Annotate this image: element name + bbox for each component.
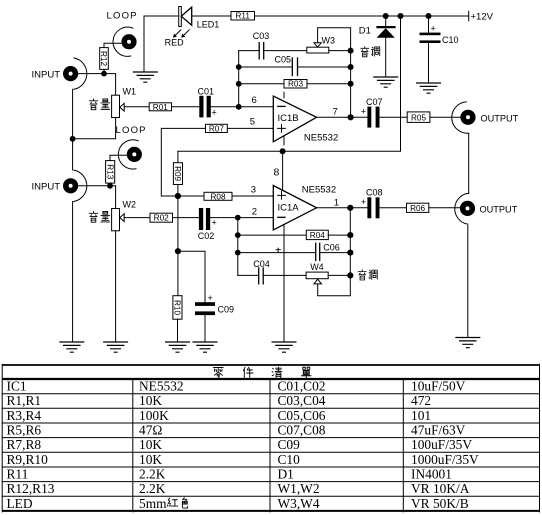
svg-text:R7,R8: R7,R8 bbox=[7, 437, 42, 452]
wire LED to R11 bbox=[192, 15, 231, 17]
svg-text:NE5532: NE5532 bbox=[139, 379, 184, 394]
wire R10 to ground bbox=[177, 319, 179, 342]
junction C05 left bbox=[236, 64, 242, 70]
junction right column W3 bbox=[348, 48, 354, 54]
wire R02 to C02 bbox=[173, 217, 199, 219]
wire W2 wiper to R02 bbox=[124, 217, 150, 219]
svg-text:R3,R4: R3,R4 bbox=[7, 408, 42, 423]
svg-text:101: 101 bbox=[411, 408, 431, 423]
svg-text:2.2K: 2.2K bbox=[139, 481, 166, 496]
wire power feed to op-amp pin 8 row bbox=[178, 16, 401, 151]
resistor R10 bbox=[173, 296, 182, 320]
resistor R13 bbox=[105, 161, 114, 184]
svg-text:R9,R10: R9,R10 bbox=[7, 452, 49, 467]
potentiometer W3 bbox=[307, 28, 351, 53]
svg-text:R01: R01 bbox=[153, 103, 168, 112]
svg-text:5: 5 bbox=[250, 116, 255, 127]
svg-text:IC1A: IC1A bbox=[278, 203, 300, 214]
resistor R01 bbox=[149, 103, 171, 112]
wire bias node down bbox=[177, 196, 179, 251]
svg-text:C06: C06 bbox=[323, 243, 340, 253]
+12V terminal bbox=[468, 11, 470, 21]
wire W4 right bbox=[328, 274, 350, 276]
polarity mark C06 bbox=[276, 248, 281, 253]
wire IC1A right column bbox=[349, 208, 351, 276]
svg-text:IN4001: IN4001 bbox=[411, 467, 452, 482]
wire R06 to output jack 2 bbox=[429, 207, 460, 209]
svg-text:100uF/35V: 100uF/35V bbox=[411, 437, 472, 452]
svg-text:OUTPUT: OUTPUT bbox=[480, 205, 518, 215]
junction C05 right bbox=[348, 64, 354, 70]
junction C06 right bbox=[347, 250, 353, 256]
ground output jacks bbox=[455, 338, 480, 348]
svg-text:C01,C02: C01,C02 bbox=[278, 379, 326, 394]
junction R03 right bbox=[348, 81, 354, 87]
wire IC1A left column bbox=[237, 218, 239, 276]
svg-text:8: 8 bbox=[274, 167, 280, 179]
junction bias node bbox=[175, 193, 181, 199]
svg-text:10uF/50V: 10uF/50V bbox=[411, 379, 466, 394]
label 音量 channel1 bbox=[89, 99, 109, 110]
LED emission arrows bbox=[175, 30, 190, 36]
table row R12,R13 bbox=[7, 481, 470, 496]
svg-text:+: + bbox=[212, 108, 217, 118]
svg-text:C01: C01 bbox=[198, 86, 215, 96]
svg-text:LOOP: LOOP bbox=[116, 125, 147, 136]
svg-text:100K: 100K bbox=[139, 408, 169, 423]
svg-text:W4: W4 bbox=[310, 262, 324, 272]
svg-text:C08: C08 bbox=[366, 187, 383, 197]
svg-text:VR 10K/A: VR 10K/A bbox=[411, 481, 470, 496]
junction C06 left bbox=[235, 250, 241, 256]
LED LED1 bbox=[179, 7, 192, 27]
junction rail-power feed bbox=[398, 13, 404, 19]
svg-text:C05,C06: C05,C06 bbox=[278, 408, 326, 423]
label 音调 channel1 bbox=[361, 47, 380, 57]
svg-text:INPUT: INPUT bbox=[32, 182, 61, 193]
svg-text:10K: 10K bbox=[139, 437, 162, 452]
svg-text:C04: C04 bbox=[253, 259, 270, 269]
wire LOOP2 to R13 bbox=[110, 155, 127, 160]
parts list table borders bbox=[2, 364, 539, 512]
wire +12V top rail left segment bbox=[144, 15, 179, 17]
capacitor C02 bbox=[199, 208, 217, 230]
INPUT jack 1 bbox=[63, 58, 87, 89]
wire W3 right bbox=[329, 50, 351, 52]
svg-text:2: 2 bbox=[252, 206, 257, 217]
svg-text:3: 3 bbox=[251, 185, 256, 196]
svg-text:+: + bbox=[361, 107, 366, 117]
svg-text:2.2K: 2.2K bbox=[139, 467, 166, 482]
svg-text:C03,C04: C03,C04 bbox=[278, 393, 326, 408]
svg-text:R11: R11 bbox=[235, 12, 250, 21]
svg-text:C09: C09 bbox=[278, 437, 301, 452]
wire output shield to ground bbox=[467, 224, 469, 337]
junction R13-input2 bbox=[107, 183, 113, 189]
svg-text:R09: R09 bbox=[173, 166, 182, 181]
junction power feed pin8 bbox=[280, 148, 286, 154]
wire R08 to pin 3 bbox=[232, 195, 273, 197]
label 音调 channel2 bbox=[358, 270, 377, 280]
junction R12-input bbox=[101, 71, 107, 77]
svg-text:IC1: IC1 bbox=[7, 379, 27, 394]
junction left column pin2 bbox=[235, 215, 241, 221]
svg-text:R07: R07 bbox=[209, 124, 224, 133]
junction W4 right bbox=[347, 272, 353, 278]
wire C04 to W4 bbox=[263, 274, 306, 276]
svg-text:W3: W3 bbox=[322, 36, 336, 46]
svg-text:NE5532: NE5532 bbox=[302, 184, 336, 195]
junction pin 7 bbox=[348, 114, 354, 120]
wire R09 feed bbox=[177, 151, 179, 162]
ground C10 bbox=[416, 83, 441, 93]
resistor R03 bbox=[284, 80, 307, 89]
svg-text:W1: W1 bbox=[123, 87, 137, 97]
capacitor C05 bbox=[292, 58, 297, 76]
capacitor C04 bbox=[259, 268, 264, 284]
resistor R07 bbox=[206, 124, 228, 133]
wire pin 5 bbox=[227, 127, 273, 129]
svg-text:R02: R02 bbox=[154, 214, 169, 223]
wire C09 to ground bbox=[204, 315, 206, 342]
junction R04 left bbox=[235, 232, 241, 238]
op-amp IC1A bbox=[273, 186, 316, 230]
wire IC1B left column bbox=[238, 51, 240, 107]
svg-text:INPUT: INPUT bbox=[32, 69, 61, 80]
wire output shield link bbox=[468, 133, 470, 193]
wire R01 to C01 bbox=[172, 106, 200, 108]
OUTPUT jack 1 bbox=[452, 102, 476, 133]
capacitor C06 bbox=[316, 243, 320, 260]
junction left column pin6 bbox=[236, 104, 242, 110]
capacitor C09 bbox=[195, 293, 215, 315]
wire LED cathode to ground drop bbox=[143, 16, 145, 72]
svg-text:LED: LED bbox=[7, 496, 33, 511]
svg-text:10K: 10K bbox=[139, 393, 162, 408]
resistor R09 bbox=[173, 163, 182, 185]
wire R03 row left bbox=[239, 83, 284, 85]
svg-text:7: 7 bbox=[333, 107, 338, 118]
capacitor C07 bbox=[361, 107, 380, 128]
wire shield bus to ground bbox=[72, 202, 74, 342]
svg-text:D1: D1 bbox=[278, 467, 294, 482]
resistor R08 bbox=[204, 192, 232, 201]
table row R11 bbox=[7, 467, 452, 482]
table row R3,R4 bbox=[7, 408, 432, 423]
resistor R05 bbox=[407, 112, 430, 123]
svg-text:47Ω: 47Ω bbox=[139, 423, 162, 438]
wire C01 to pin 6 bbox=[211, 106, 273, 108]
OUTPUT jack 2 bbox=[455, 193, 475, 224]
svg-text:6: 6 bbox=[252, 95, 257, 106]
resistor R11 bbox=[231, 12, 255, 21]
svg-text:R10: R10 bbox=[173, 300, 182, 315]
wire pin 7 output bbox=[317, 116, 368, 118]
wire C02 to pin 2 bbox=[210, 217, 273, 219]
svg-text:R11: R11 bbox=[7, 467, 29, 482]
wire pin 8 drop IC1A bbox=[282, 151, 284, 190]
capacitor C08 bbox=[361, 197, 380, 218]
svg-text:1000uF/35V: 1000uF/35V bbox=[411, 452, 479, 467]
table row IC1 bbox=[7, 379, 466, 394]
table header 零件清單 bbox=[213, 367, 311, 378]
svg-text:+: + bbox=[208, 293, 213, 303]
table row R9,R10 bbox=[7, 452, 480, 467]
wire INPUT2 to W2 bbox=[78, 186, 115, 209]
svg-text:C03: C03 bbox=[253, 31, 270, 41]
svg-text:R03: R03 bbox=[288, 80, 303, 89]
wire pin 4 to ground bbox=[283, 225, 285, 342]
resistor R12 bbox=[99, 48, 108, 70]
wire C06 row right bbox=[320, 252, 351, 254]
svg-text:C02: C02 bbox=[198, 231, 215, 241]
svg-text:W3,W4: W3,W4 bbox=[278, 496, 320, 511]
wire R07 to bias node bbox=[161, 128, 205, 196]
svg-text:C07,C08: C07,C08 bbox=[278, 423, 326, 438]
svg-text:C05: C05 bbox=[275, 55, 292, 65]
svg-text:R08: R08 bbox=[210, 192, 225, 201]
wire W2 bottom to ground bbox=[115, 231, 117, 342]
svg-text:LED1: LED1 bbox=[197, 20, 220, 30]
wire R04 row left bbox=[238, 234, 306, 236]
svg-text:+: + bbox=[361, 197, 366, 207]
svg-text:OUTPUT: OUTPUT bbox=[481, 113, 519, 123]
label 音量 channel2 bbox=[89, 211, 109, 222]
INPUT jack 2 bbox=[63, 170, 87, 201]
op-amp IC1B bbox=[273, 92, 316, 145]
junction pin 1 bbox=[347, 205, 353, 211]
wire R04 row right bbox=[328, 234, 350, 236]
svg-text:IC1B: IC1B bbox=[278, 113, 299, 124]
wire W1 wiper to R01 bbox=[124, 106, 149, 108]
wire LOOP1 to R12 bbox=[104, 43, 122, 47]
svg-text:+: + bbox=[212, 218, 217, 228]
svg-text:R13: R13 bbox=[105, 164, 114, 179]
svg-text:W2: W2 bbox=[123, 199, 137, 209]
wire R05 to output jack 1 bbox=[430, 116, 461, 118]
table row R5,R6 bbox=[7, 423, 466, 438]
wire bias node to R08 bbox=[178, 195, 204, 197]
junction bias node 2 bbox=[175, 248, 181, 254]
LOOP jack 1 bbox=[113, 27, 137, 56]
wire C05 row left bbox=[239, 66, 293, 68]
ground W2 bbox=[103, 342, 128, 352]
resistor R04 bbox=[306, 230, 328, 240]
wire C08 to R06 bbox=[380, 207, 407, 209]
resistor R02 bbox=[150, 213, 173, 223]
svg-text:R04: R04 bbox=[310, 231, 325, 240]
wire R12 to input node bbox=[103, 69, 105, 73]
wire C03 to W3 bbox=[264, 50, 307, 52]
ground input shield bbox=[59, 342, 84, 352]
LOOP jack 2 bbox=[118, 140, 142, 169]
wire C06 row left bbox=[238, 252, 316, 254]
wire R03 row right bbox=[307, 83, 351, 85]
potentiometer W1 bbox=[112, 95, 125, 117]
wire R09 to bias node bbox=[177, 185, 179, 197]
capacitor C10 bbox=[420, 16, 441, 83]
svg-text:R12,R13: R12,R13 bbox=[7, 481, 55, 496]
svg-text:5mm: 5mm bbox=[139, 496, 167, 511]
wire C04 row left bbox=[238, 274, 259, 276]
svg-text:+: + bbox=[431, 24, 436, 34]
svg-text:+12V: +12V bbox=[471, 12, 494, 23]
potentiometer W4 bbox=[306, 272, 350, 296]
svg-text:VR 50K/B: VR 50K/B bbox=[411, 496, 469, 511]
svg-text:D1: D1 bbox=[359, 26, 371, 37]
svg-text:10K: 10K bbox=[139, 452, 162, 467]
ground IC1A pin4 bbox=[272, 342, 297, 352]
svg-text:R06: R06 bbox=[410, 204, 425, 213]
wire C05 row right bbox=[298, 66, 351, 68]
diode D1 bbox=[376, 16, 395, 77]
wire +12V top rail right segment bbox=[255, 15, 469, 17]
svg-text:C10: C10 bbox=[278, 452, 301, 467]
wire pin 1 output bbox=[317, 207, 368, 209]
svg-text:C07: C07 bbox=[366, 97, 383, 107]
resistor R06 bbox=[407, 203, 429, 213]
wire IC1B right column bbox=[350, 51, 352, 118]
wire C03 row left bbox=[239, 50, 260, 52]
wire C07 to R05 bbox=[380, 116, 408, 118]
ground R10 bbox=[165, 342, 190, 352]
capacitor C03 bbox=[259, 43, 264, 59]
svg-text:NE5532: NE5532 bbox=[304, 133, 338, 144]
ground C09 bbox=[193, 342, 218, 352]
wire bias node2 to C09 bbox=[178, 251, 205, 302]
junction R03 left bbox=[236, 81, 242, 87]
svg-text:W1,W2: W1,W2 bbox=[278, 481, 320, 496]
svg-text:R12: R12 bbox=[99, 51, 108, 66]
shield bus input jacks bbox=[72, 89, 74, 170]
svg-text:47uF/63V: 47uF/63V bbox=[411, 423, 466, 438]
junction rail-D1 bbox=[383, 13, 389, 19]
potentiometer W2 bbox=[112, 209, 125, 231]
ground LED bbox=[133, 72, 158, 82]
junction rail-C10 bbox=[426, 13, 432, 19]
table row R7,R8 bbox=[7, 437, 473, 452]
table row LED bbox=[7, 496, 469, 511]
table row R1 bbox=[7, 393, 432, 408]
junction R04 right bbox=[347, 232, 353, 238]
svg-text:R05: R05 bbox=[411, 113, 426, 122]
svg-text:RED: RED bbox=[165, 38, 185, 48]
svg-text:472: 472 bbox=[411, 393, 431, 408]
ground D1 bbox=[373, 77, 398, 87]
capacitor C01 bbox=[199, 96, 216, 118]
svg-text:C09: C09 bbox=[218, 305, 235, 315]
wire INPUT1 to W1 bbox=[78, 74, 115, 96]
junction W1 cold return bbox=[70, 136, 76, 142]
wire R13 to input2 node bbox=[109, 183, 111, 186]
wire bias node2 to R10 bbox=[177, 251, 179, 296]
svg-text:1: 1 bbox=[334, 197, 339, 208]
wire W1 bottom to shield bus bbox=[73, 118, 116, 139]
svg-text:LOOP: LOOP bbox=[107, 10, 138, 21]
svg-text:C10: C10 bbox=[442, 35, 459, 45]
svg-text:R5,R6: R5,R6 bbox=[7, 423, 42, 438]
svg-text:R1,R1: R1,R1 bbox=[7, 393, 42, 408]
